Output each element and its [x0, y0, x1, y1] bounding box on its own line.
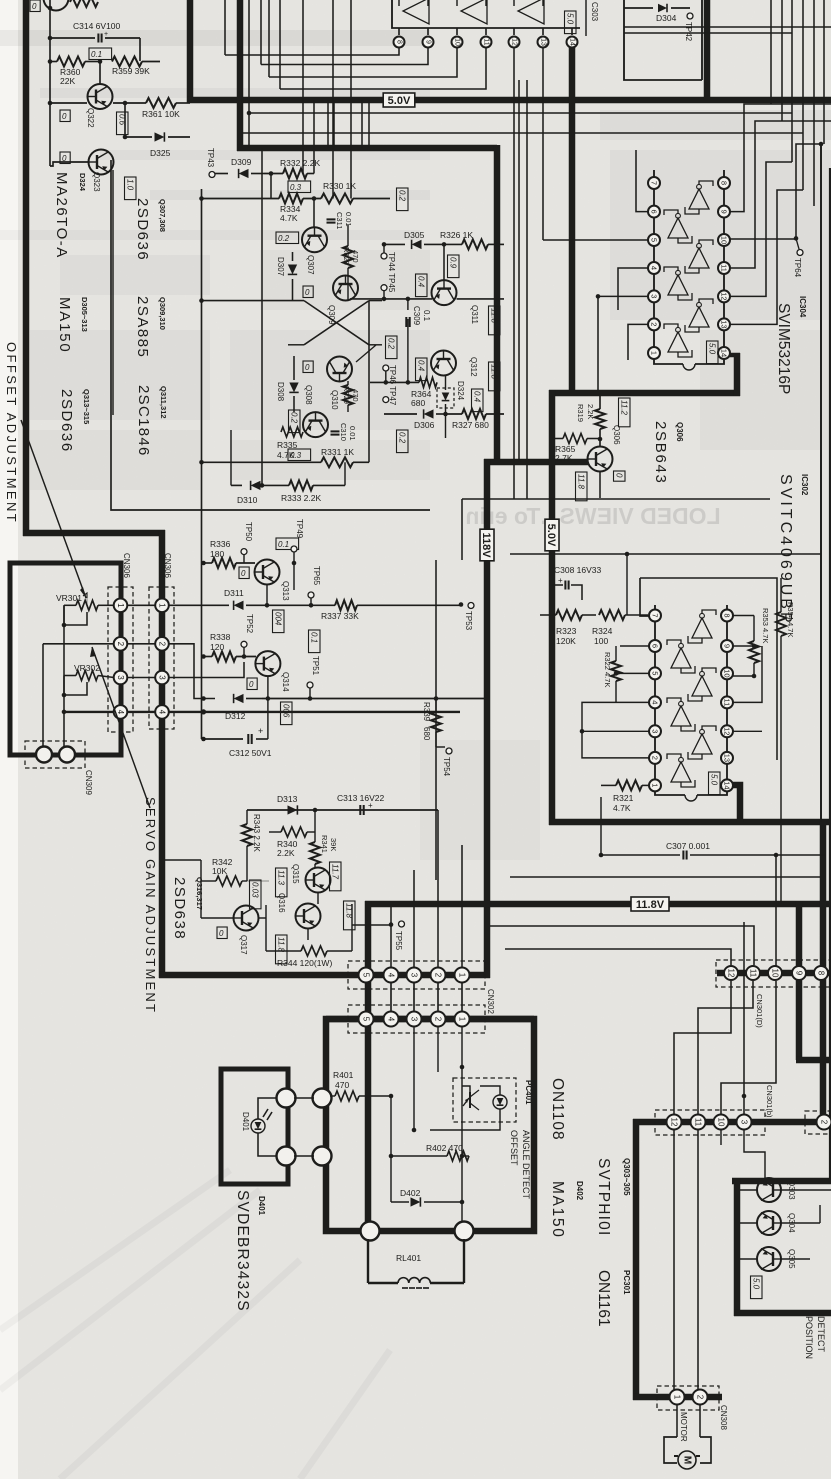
CN309 pin a: [36, 747, 52, 763]
svg-text:SVTPHI0I: SVTPHI0I: [595, 1158, 612, 1237]
capacitor C309 0.1: [405, 317, 407, 327]
wire short verticals bus to y148: [327, 100, 329, 148]
svg-text:680: 680: [422, 727, 431, 741]
svg-text:0.01: 0.01: [348, 426, 357, 441]
IC304 inverter 2: [664, 210, 692, 243]
row y345 horizontal: [303, 344, 305, 346]
svg-text:0: 0: [241, 569, 246, 578]
IC302 pin 9: [721, 640, 733, 652]
svg-text:C312 50V1: C312 50V1: [229, 748, 272, 758]
svg-text:0.03: 0.03: [251, 882, 260, 898]
svg-text:MA150: MA150: [56, 297, 73, 354]
IC302 pin 13: [721, 752, 733, 764]
IC304 pin 3: [648, 290, 660, 302]
svg-text:2: 2: [434, 1017, 443, 1022]
wire heavy 5.0V vertical x552: [549, 390, 556, 825]
svg-text:14: 14: [569, 38, 576, 46]
svg-text:3: 3: [410, 973, 419, 978]
svg-text:RL401: RL401: [396, 1253, 421, 1263]
svg-text:10: 10: [454, 38, 461, 46]
svg-text:2.2K: 2.2K: [586, 404, 595, 419]
svg-text:D306: D306: [414, 420, 435, 430]
wire PC401 feed: [461, 1066, 463, 1068]
IC304 pin 5: [648, 234, 660, 246]
CN309 dashed box: [25, 741, 85, 768]
wire heavy IC302 pin14 riser: [727, 785, 740, 822]
wire vertical x100 R360-R359 node to Q322: [98, 59, 103, 64]
svg-text:9: 9: [425, 40, 432, 44]
resistor R359 39K: [112, 57, 142, 67]
row y198.5 horizontal: [199, 196, 204, 201]
wire block right rail x369: [368, 301, 370, 463]
svg-text:0.2: 0.2: [278, 234, 290, 243]
svg-text:D311: D311: [224, 588, 244, 598]
CN302 upper pin 2: [431, 968, 446, 983]
svg-text:D325: D325: [150, 148, 171, 158]
voltage box 0 left of Q317: [217, 927, 227, 939]
IC302 inverter 1: [688, 610, 716, 643]
wire heavy vertical x823 (5.0V down to CN301b pin2): [820, 822, 827, 1122]
transistor Q308: [303, 412, 328, 437]
wire pin4 row: [64, 711, 114, 713]
wire pin12 down-stair to CN301b pin12: [674, 981, 731, 1114]
svg-text:R333 2.2K: R333 2.2K: [281, 493, 321, 503]
svg-text:2SB643: 2SB643: [652, 421, 669, 485]
svg-text:PC301: PC301: [622, 1270, 631, 1295]
wire Q311 collector riser: [443, 244, 445, 280]
wire TP55 riser: [390, 904, 392, 968]
CN302 lower pin 1: [455, 1012, 470, 1027]
IC302 pin 1: [649, 779, 661, 791]
svg-text:CN309: CN309: [84, 770, 93, 795]
voltage box 0.4 rotated left of Q312: [416, 358, 428, 381]
svg-text:11.8: 11.8: [277, 937, 286, 953]
test point TP52: [241, 641, 247, 647]
svg-text:D324: D324: [456, 381, 465, 401]
wire x50 corner to Q323 base: [50, 162, 88, 166]
wire CN302 pins risers: [413, 870, 415, 968]
wire pin10 stub down: [720, 1130, 722, 1145]
svg-text:39K: 39K: [329, 838, 338, 851]
svg-text:5.0V: 5.0V: [545, 524, 557, 547]
svg-text:D305~313: D305~313: [80, 297, 89, 332]
wire between junction circles: [294, 1097, 314, 1099]
svg-text:4.7K: 4.7K: [613, 803, 631, 813]
svg-text:+: +: [104, 31, 108, 38]
svg-text:11.8: 11.8: [490, 364, 499, 380]
wire left entry x201 upper: [200, 860, 202, 881]
resistor R333 2.2K: [289, 480, 313, 490]
label 118V vertical bus: [480, 529, 494, 561]
IC302 pin 7: [649, 610, 661, 622]
wire bundle right edge verticals: [770, 0, 772, 104]
wire stair pin11: [280, 48, 486, 89]
wire C307 riser to pin10 line: [775, 855, 777, 973]
IC304 pin 2: [648, 318, 660, 330]
svg-text:680: 680: [411, 398, 425, 408]
svg-text:2: 2: [651, 756, 660, 760]
svg-text:470: 470: [335, 1080, 349, 1090]
wire rail x262 vertical: [261, 148, 263, 485]
voltage box 11.8 below Q306: [576, 472, 588, 501]
motor M symbol: [678, 1451, 696, 1469]
transistor Q314: [255, 651, 280, 676]
svg-text:+: +: [558, 576, 563, 585]
wire CN309 left wire x43: [42, 644, 44, 748]
svg-text:SERVO GAIN ADJUSTMENT: SERVO GAIN ADJUSTMENT: [143, 797, 158, 1014]
row D312 to 118V bus: [262, 698, 436, 700]
voltage box 0.3 row2: [288, 181, 311, 193]
wire D310 row riser: [344, 462, 346, 485]
IC304 right stair wires: [730, 104, 831, 212]
CN301b pin 2: [817, 1115, 831, 1130]
svg-text:9: 9: [795, 971, 804, 976]
CN309 pin b: [59, 747, 75, 763]
resistor R337 33K: [311, 604, 335, 606]
voltage box 0.3 row D310: [288, 449, 311, 461]
wire Q306 collector down: [599, 471, 601, 498]
svg-text:0: 0: [249, 680, 254, 689]
label 11.8V bus: [631, 897, 669, 911]
svg-text:0.01: 0.01: [344, 212, 353, 227]
resistor R324 100: [599, 610, 625, 620]
svg-text:R402 470: R402 470: [426, 1143, 463, 1153]
voltage box 0.9 rotated: [448, 255, 460, 278]
svg-text:0.1: 0.1: [278, 540, 289, 549]
wire R402 to pin risers: [413, 1026, 415, 1130]
svg-text:0.3: 0.3: [290, 451, 302, 460]
svg-text:11: 11: [723, 699, 732, 707]
svg-text:D401: D401: [241, 1112, 250, 1132]
svg-text:11.2: 11.2: [620, 400, 629, 416]
svg-text:R324: R324: [592, 626, 613, 636]
svg-text:D304: D304: [656, 13, 677, 23]
row y414 horizontal D306 R327: [384, 413, 417, 415]
svg-text:Q303~305: Q303~305: [622, 1158, 631, 1196]
voltage box 0 left of Q313: [239, 567, 249, 579]
svg-text:TP43: TP43: [206, 148, 215, 168]
svg-text:Q316,317: Q316,317: [195, 877, 204, 910]
IC302 thin outer box: [435, 560, 437, 880]
voltage box 11.8 below Q316: [276, 935, 288, 964]
svg-text:TP44 TP45: TP44 TP45: [387, 252, 396, 293]
svg-text:+: +: [258, 726, 263, 736]
LED D401 internal wires: [258, 1098, 280, 1119]
CN306 right pin 1: [155, 599, 169, 613]
svg-text:R341: R341: [320, 835, 329, 853]
servo block top wire y810: [247, 809, 438, 811]
svg-text:Q317: Q317: [239, 935, 248, 955]
voltage box 0.4 rotated right of D324: [472, 389, 484, 412]
svg-text:1.0: 1.0: [126, 179, 135, 191]
svg-text:TP51: TP51: [311, 656, 320, 676]
svg-text:MA150: MA150: [549, 1181, 566, 1239]
wire pin7 corner: [640, 578, 649, 616]
voltage box 11.8 rotated right of Q312: [489, 362, 501, 391]
transistor Q311: [432, 280, 457, 305]
CN302 upper pin 1: [455, 968, 470, 983]
svg-text:5: 5: [651, 671, 660, 675]
wire TP49 riser to R337 row: [293, 563, 295, 590]
wire heavy vertical x707 top right: [704, 0, 711, 100]
svg-text:C313 16V22: C313 16V22: [337, 793, 385, 803]
resistor R344 120(1W): [301, 946, 327, 956]
resistor R353 4.7K vertical: [749, 641, 759, 663]
svg-text:2SD636: 2SD636: [134, 198, 151, 261]
svg-text:2SA885: 2SA885: [134, 296, 151, 358]
wire heavy CN301 upper row y973: [717, 970, 831, 977]
wire pin10 down-stair to CN301b pin10: [721, 981, 776, 1114]
wire pin3 riser: [743, 922, 745, 1114]
IC304 inverter 3: [685, 240, 713, 273]
svg-text:11.8: 11.8: [490, 308, 499, 324]
svg-text:R319: R319: [576, 404, 585, 422]
wire pin3 row: [98, 676, 114, 678]
svg-text:0.1: 0.1: [310, 632, 319, 643]
svg-text:Q310: Q310: [330, 390, 339, 410]
resistor R340 2.2K: [281, 827, 307, 837]
wire heavy 5.0V bottom horizontal y822: [549, 819, 831, 826]
svg-text:10: 10: [720, 236, 729, 244]
IC302 pin 10: [721, 667, 733, 679]
svg-text:3: 3: [410, 1017, 419, 1022]
svg-text:0: 0: [615, 473, 624, 478]
voltage box 004 rotated: [273, 610, 285, 633]
svg-text:Q306: Q306: [675, 422, 684, 442]
svg-text:MA26TO-A: MA26TO-A: [53, 172, 70, 259]
CN301b dashed box: [655, 1110, 765, 1135]
CN302 bottom dashed box: [348, 1005, 485, 1033]
svg-text:4: 4: [650, 266, 659, 270]
CN306 left pin 1: [114, 599, 128, 613]
label 5.0V vertical bus: [545, 519, 559, 551]
wire 118V vertical bus: [484, 459, 491, 978]
svg-text:Q323: Q323: [92, 172, 101, 192]
test point TP47: [383, 397, 389, 403]
svg-text:D307: D307: [276, 257, 285, 277]
test point TP50: [241, 549, 247, 555]
wire x601 vertical: [600, 797, 602, 855]
transistor Q317: [234, 906, 259, 931]
diode D310: [231, 484, 242, 486]
wire y554 horizontal to right edge: [510, 553, 821, 555]
position-detect heavy box left edge: [734, 1178, 741, 1316]
svg-text:11.8: 11.8: [577, 474, 586, 490]
svg-text:C303: C303: [590, 2, 599, 22]
transistor Q303: [757, 1178, 781, 1202]
svg-text:470: 470: [351, 250, 360, 263]
resistor R329 470 vertical: [343, 385, 353, 405]
wire motor drive verticals: [673, 1130, 675, 1390]
svg-text:5: 5: [362, 1017, 371, 1022]
wire heavy 11.8V left corner vertical x368: [365, 901, 372, 1231]
row y299 horizontal (11.8 row): [382, 297, 387, 302]
IC304 pin 14: [718, 347, 730, 359]
svg-text:0.2: 0.2: [398, 190, 407, 202]
svg-text:4: 4: [158, 710, 167, 715]
svg-text:10: 10: [723, 669, 732, 677]
svg-text:Q312: Q312: [469, 357, 478, 377]
svg-text:Q313~315: Q313~315: [82, 389, 91, 424]
wire pin2 row: [43, 643, 114, 645]
IC302 inverter 6: [667, 754, 695, 787]
CN308 dashed box: [657, 1386, 719, 1410]
voltage box 0.03 rotated: [250, 880, 262, 909]
svg-text:C307 0.001: C307 0.001: [666, 841, 710, 851]
svg-text:R330 1K: R330 1K: [323, 181, 356, 191]
CN302 upper pin 3: [407, 968, 422, 983]
wire heavy CN308 row horizontal: [633, 1394, 722, 1401]
svg-text:C309: C309: [412, 306, 421, 326]
svg-text:OFFSET: OFFSET: [509, 1130, 519, 1166]
svg-text:CN306: CN306: [163, 553, 172, 578]
svg-text:118V: 118V: [480, 532, 492, 558]
wire 11.8V bus horizontal: [365, 901, 831, 908]
wire stair pin10: [269, 48, 457, 77]
resistor R332 2.2K: [269, 171, 274, 176]
svg-text:1: 1: [158, 603, 167, 608]
CN308 pin 1: [670, 1390, 685, 1405]
test point TP64: [794, 236, 799, 241]
svg-text:R343 2.2K: R343 2.2K: [252, 814, 261, 852]
IC304 pin 6: [648, 206, 660, 218]
wire Q313 emitter down: [266, 585, 268, 606]
resistor R328 470 vertical: [343, 246, 353, 268]
wire heavy CN302 top row: [159, 972, 490, 979]
svg-text:TP50: TP50: [244, 522, 253, 542]
PC401 phototransistor: [463, 1090, 479, 1110]
test point TP53: [459, 602, 464, 607]
svg-text:D305: D305: [404, 230, 425, 240]
IC304 pin 4: [648, 262, 660, 274]
svg-text:11: 11: [694, 1118, 703, 1127]
svg-text:2: 2: [434, 973, 443, 978]
IC301 pin 10: [456, 28, 458, 35]
svg-text:Q322: Q322: [86, 108, 95, 128]
wire right edge vertical x821 long: [823, 0, 825, 144]
wire long horizontal y130: [242, 132, 803, 134]
CN301 upper pin 10: [768, 966, 782, 980]
transistor Q316: [296, 904, 321, 929]
CN302 lower pin 2: [431, 1012, 446, 1027]
diode D307: [292, 252, 294, 261]
svg-text:R328: R328: [342, 247, 351, 265]
svg-text:5.0: 5.0: [752, 1278, 761, 1290]
wire heavy CN302 bottom row left extension: [326, 1016, 534, 1023]
wire heavy IC301 outer border vertical x190: [187, 0, 194, 103]
junction circle relay box bottom left: [361, 1222, 380, 1241]
IC304 pin 7: [648, 177, 660, 189]
IC304 left wires: [636, 150, 648, 212]
voltage box 0 left of Q314: [247, 678, 257, 690]
svg-text:D324: D324: [78, 173, 87, 192]
svg-text:7: 7: [650, 181, 659, 185]
transistor Q310: [327, 357, 352, 382]
svg-text:11.7: 11.7: [331, 864, 340, 880]
CN301b pin 10: [714, 1115, 729, 1130]
CN306 right pin 3: [155, 671, 169, 685]
IC301 pin 12: [513, 28, 515, 35]
svg-text:12: 12: [511, 38, 518, 46]
PC401 wires: [462, 1086, 470, 1092]
svg-text:13: 13: [720, 320, 729, 328]
voltage box 006 rotated: [281, 702, 293, 725]
svg-text:1: 1: [673, 1395, 682, 1400]
svg-text:2: 2: [820, 1120, 829, 1125]
svg-text:TP42: TP42: [684, 22, 693, 42]
transistor Q304: [757, 1211, 781, 1235]
wire vertical x140 from C314: [139, 38, 141, 61]
svg-text:0: 0: [62, 112, 67, 121]
svg-text:Q313: Q313: [281, 581, 290, 601]
voltage box 5.0 position detect: [751, 1276, 763, 1299]
svg-text:R354 4.7K: R354 4.7K: [786, 602, 795, 637]
voltage box 0 left of Q309: [303, 286, 313, 298]
IC302 pin 5: [649, 667, 661, 679]
svg-text:2SC1846: 2SC1846: [135, 385, 152, 457]
svg-text:10K: 10K: [212, 866, 227, 876]
voltage box 11.2 rotated: [619, 398, 631, 427]
svg-text:2SD638: 2SD638: [171, 877, 188, 940]
voltage box 0.4 rotated left of Q311: [416, 274, 428, 297]
resistor R322 4.7K vertical: [611, 661, 621, 681]
motor wires: [676, 1405, 678, 1437]
CN302 lower pin 5: [359, 1012, 374, 1027]
wire x464 vertical pin1 drop: [461, 1026, 463, 1067]
PC401 dashed box: [453, 1078, 516, 1122]
IC302 pin 8: [721, 610, 733, 622]
svg-text:D312: D312: [225, 711, 246, 721]
svg-text:006: 006: [282, 704, 291, 718]
resistor R364 680: [419, 377, 437, 387]
diode D313: [288, 805, 298, 814]
IC302 right wires: [733, 645, 754, 647]
svg-text:13: 13: [723, 754, 732, 762]
svg-text:ON1108: ON1108: [549, 1078, 566, 1141]
svg-text:2: 2: [116, 642, 125, 647]
svg-text:TP65: TP65: [312, 566, 321, 586]
svg-text:R339: R339: [422, 702, 431, 722]
wire heavy vertical x799 pin9: [796, 901, 803, 1060]
svg-text:R359 39K: R359 39K: [112, 66, 150, 76]
IC301 pin 9: [427, 28, 429, 35]
svg-text:R326 1K: R326 1K: [440, 230, 473, 240]
IC302 pin 3: [649, 725, 661, 737]
svg-text:22K: 22K: [60, 76, 75, 86]
IC301 inverter B: [461, 0, 487, 24]
svg-text:12: 12: [670, 1118, 679, 1127]
svg-text:3: 3: [116, 675, 125, 680]
diode D309: [215, 173, 228, 175]
capacitor C311 0.01: [327, 218, 336, 220]
resistor R360 22K: [57, 57, 85, 67]
svg-text:5: 5: [362, 973, 371, 978]
voltage box 0.2 rotated right of R330: [397, 188, 409, 211]
CN302 lower pin 3: [407, 1012, 422, 1027]
wire heavy y533 horizontal: [23, 530, 165, 537]
svg-text:Q307: Q307: [306, 255, 315, 275]
svg-text:4: 4: [387, 1017, 396, 1022]
wire x445 drop below: [445, 414, 447, 438]
row y382 horizontal: [406, 380, 411, 385]
wire vertical x50 rail: [49, 0, 51, 103]
resistor R343 2.2K vertical: [242, 824, 252, 846]
IC301 pin 8: [398, 28, 400, 35]
svg-text:9: 9: [723, 644, 732, 648]
wire node row y8: [49, 7, 51, 9]
voltage box 0 right of Q306: [614, 471, 626, 481]
svg-text:11.8V: 11.8V: [636, 899, 665, 911]
